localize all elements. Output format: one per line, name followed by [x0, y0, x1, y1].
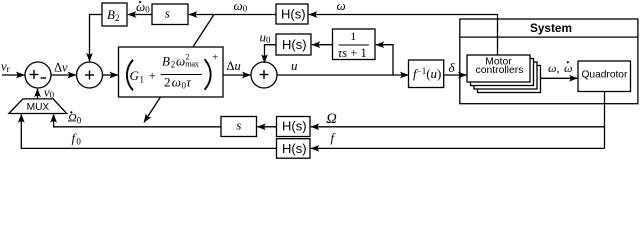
wire sum2 to gain block — [103, 74, 119, 76]
wire branch u up into tau block — [376, 45, 393, 75]
svg-text:ω: ω — [176, 54, 185, 69]
svg-text:u: u — [291, 58, 298, 73]
block text Motor controllers — [476, 57, 524, 76]
wire u0 H(s) mid to sum3 top — [265, 45, 277, 63]
wire H(s) bottom1 to s bottom — [257, 126, 276, 128]
wire omega from motor controllers to H(s) top — [309, 15, 498, 56]
wire u sum3 to f-inverse with branch up to tau block — [277, 74, 409, 76]
wire Delta-u gain block to sum3 — [223, 74, 251, 76]
System box — [460, 19, 638, 104]
summing junction S1 — [25, 62, 51, 88]
svg-text:+: + — [212, 51, 218, 63]
svg-text:+: + — [149, 68, 156, 83]
wire omega_i motor controllers to quadrotor — [541, 77, 578, 79]
svg-text:ν0: ν0 — [44, 86, 55, 101]
svg-text:H(s): H(s) — [282, 37, 307, 52]
label Omega0-dot — [68, 111, 82, 126]
wire omega0-dot s block to B2 — [128, 14, 152, 16]
wire tau block to H(s) mid — [312, 44, 333, 46]
svg-text:System: System — [530, 21, 572, 35]
label omega comma omega-dot — [548, 61, 572, 75]
svg-text:νr: νr — [1, 59, 10, 74]
wire quadrotor down feedback trunk — [604, 92, 606, 149]
svg-text:f: f — [331, 130, 337, 145]
svg-text:ω0: ω0 — [136, 0, 150, 15]
svg-text:B: B — [162, 54, 170, 69]
summing junction S3 — [251, 62, 277, 88]
gain block formula — [127, 51, 218, 90]
wire Omega0-dot s bottom to MUX — [54, 114, 221, 127]
sum3 plus sign — [260, 70, 269, 79]
svg-text:1: 1 — [350, 29, 356, 43]
block H(s) mid — [276, 34, 311, 55]
sum1 plus minus signs — [30, 70, 47, 79]
block s bottom — [221, 117, 257, 137]
block s differentiator top — [152, 4, 188, 25]
block Quadrotor — [578, 61, 631, 92]
block f-inverse — [409, 60, 444, 88]
wire nu0 MUX to sum1 bottom — [37, 89, 39, 99]
svg-text:Ω0: Ω0 — [68, 111, 82, 126]
block 1/(tau s+1) — [333, 29, 376, 60]
System title separator — [460, 36, 638, 38]
svg-text:Δν: Δν — [54, 61, 68, 75]
svg-text:Ω: Ω — [326, 111, 337, 127]
svg-text:H(s): H(s) — [281, 7, 306, 22]
svg-text:s: s — [236, 117, 241, 132]
svg-text:1: 1 — [140, 74, 145, 84]
wire input nu_r to sum1 — [2, 74, 25, 76]
wire diagonal adaptation arrow through gain block — [144, 15, 214, 123]
block H(s) top — [276, 4, 308, 24]
svg-text:u0: u0 — [260, 30, 272, 46]
block B2 — [102, 3, 127, 26]
svg-text:s: s — [165, 5, 170, 20]
block H(s) bottom1 — [277, 117, 311, 137]
svg-text:δ: δ — [449, 60, 456, 75]
svg-text:ω: ω — [172, 75, 181, 90]
svg-text:H(s): H(s) — [282, 119, 307, 134]
svg-text:G: G — [130, 68, 140, 83]
wire omega0 H(s) top to s block — [189, 14, 276, 16]
MUX trapezoid — [9, 99, 67, 114]
wire delta f-inverse to motor controllers — [444, 74, 467, 76]
svg-text:MUX: MUX — [27, 102, 50, 113]
label omega0-dot — [136, 0, 150, 15]
svg-text:2: 2 — [164, 75, 171, 90]
svg-text:Δu: Δu — [227, 59, 241, 73]
sum2 plus sign — [85, 71, 94, 80]
svg-text:f0: f0 — [72, 131, 82, 147]
svg-text:controllers: controllers — [476, 65, 524, 76]
svg-text:Quadrotor: Quadrotor — [582, 70, 628, 81]
wire f0 H(s) bottom2 to MUX — [21, 114, 276, 148]
svg-text:H(s): H(s) — [282, 141, 307, 156]
svg-text:max: max — [185, 59, 199, 68]
wire Delta-nu sum1 to sum2 — [51, 74, 76, 76]
block text 1 over tau s plus 1 — [338, 29, 369, 60]
block H(s) bottom2 — [277, 139, 311, 159]
svg-text:ω,: ω, — [548, 61, 559, 75]
svg-text:τs + 1: τs + 1 — [338, 46, 367, 60]
wire B2 to sum2 top — [90, 15, 103, 62]
svg-text:ω: ω — [337, 0, 346, 13]
wire Omega feedback to H(s) bottom1 — [311, 126, 605, 128]
svg-text:ω0: ω0 — [234, 0, 248, 14]
summing junction S2 — [77, 62, 103, 88]
gain block G1 — [119, 47, 224, 97]
svg-text:2: 2 — [171, 60, 176, 70]
motor controllers stacked blocks — [467, 55, 541, 93]
wire f feedback to H(s) bottom2 — [311, 147, 605, 149]
